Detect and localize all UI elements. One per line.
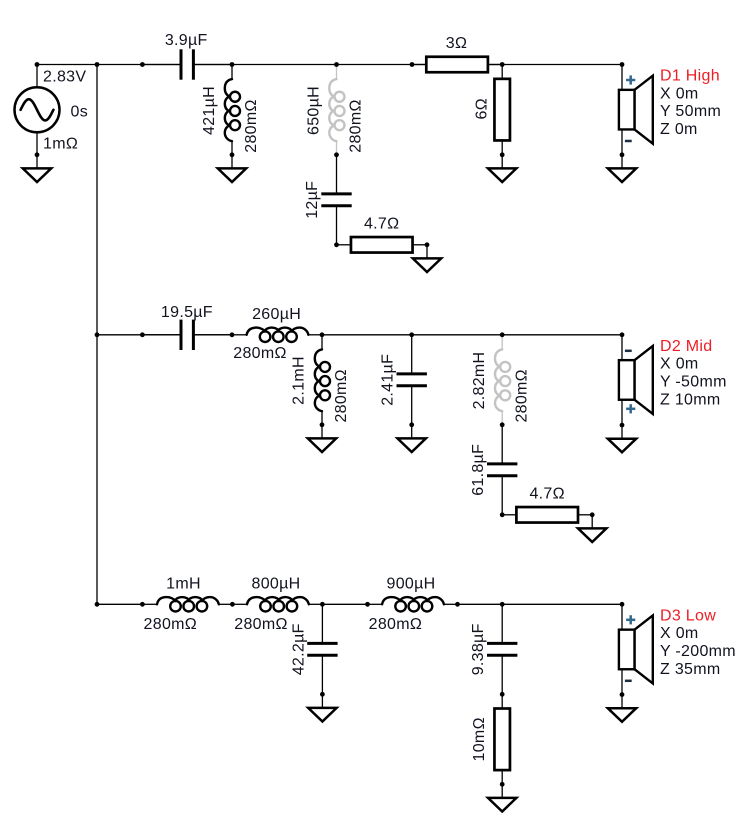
wire top row main — [37, 64, 181, 66]
junction dot L2 top — [334, 62, 339, 67]
svg-text:X 0m: X 0m — [660, 85, 699, 102]
plus sign D1 — [626, 75, 635, 84]
svg-text:4.7Ω: 4.7Ω — [364, 216, 399, 233]
junction dot C7 top — [500, 602, 505, 607]
capacitor C1 3.9uF — [142, 49, 232, 79]
junction dot D3 top — [620, 602, 625, 607]
junction dot C5 bottom — [500, 512, 505, 517]
svg-text:0s: 0s — [71, 104, 89, 121]
wire mid row bus to cap — [97, 334, 181, 336]
svg-text:280mΩ: 280mΩ — [243, 99, 260, 152]
junction dot L6 right — [230, 602, 235, 607]
minus sign D3 — [625, 680, 632, 683]
svg-text:D1 High: D1 High — [660, 68, 720, 85]
minus sign D1 — [625, 140, 632, 143]
svg-text:421µH: 421µH — [201, 86, 218, 135]
junction dot mid row A — [140, 332, 145, 337]
junction dot L1 bottom — [230, 152, 235, 157]
svg-text:Z 35mm: Z 35mm — [660, 661, 720, 678]
capacitor C3 19.5uF — [142, 320, 232, 350]
resistor R5 10m-ohm — [494, 694, 510, 784]
svg-text:D3 Low: D3 Low — [660, 607, 716, 624]
wire bus vertical — [96, 65, 98, 605]
svg-text:4.7Ω: 4.7Ω — [529, 486, 564, 503]
junction dot L2 bottom — [334, 152, 339, 157]
capacitor C5 61.8uF — [487, 425, 517, 515]
resistor R2 3ohm — [412, 57, 502, 73]
resistor R3 6ohm — [494, 65, 510, 155]
capacitor C2 12uF — [321, 155, 351, 245]
junction dot D3 bottom — [620, 692, 625, 697]
svg-text:3.9µF: 3.9µF — [165, 32, 208, 49]
svg-text:2.41µF: 2.41µF — [379, 354, 396, 406]
ground under D2 — [608, 425, 636, 452]
resistor R4 4.7ohm — [502, 507, 592, 523]
resistor R1 4.7ohm — [337, 237, 428, 253]
wire low row to speaker — [458, 603, 623, 605]
inductor L3 260uH — [232, 328, 322, 342]
ground under L4 — [308, 425, 336, 452]
wire top row 3-ohm to speaker — [488, 64, 622, 66]
ground under D1 — [608, 155, 636, 182]
junction dot source top — [35, 62, 40, 67]
inductor L6 1mH — [142, 597, 232, 611]
junction dot R1 right — [425, 242, 430, 247]
junction dot D1 top — [620, 62, 625, 67]
voltage source V1 symbol — [15, 65, 60, 155]
capacitor C4 2.41uF — [397, 335, 427, 425]
junction dot C4 bottom — [409, 422, 414, 427]
speaker D3 — [619, 604, 653, 694]
ground after R4 — [578, 515, 606, 542]
svg-text:Y -50mm: Y -50mm — [660, 374, 727, 391]
ground under source — [23, 155, 51, 182]
inductor L2 650uH (grey) — [329, 65, 344, 155]
svg-text:900µH: 900µH — [387, 576, 436, 593]
junction dot D2 top — [620, 332, 625, 337]
ground under D3 — [608, 695, 636, 722]
junction dot R2 left — [410, 62, 415, 67]
wire low row between coils — [322, 603, 367, 605]
junction dot L1 top — [230, 62, 235, 67]
svg-text:61.8µF: 61.8µF — [470, 444, 487, 496]
svg-text:2.83V: 2.83V — [43, 68, 86, 85]
plus sign D2 — [626, 404, 635, 413]
junction dot L3 left — [230, 332, 235, 337]
svg-text:280mΩ: 280mΩ — [369, 616, 422, 633]
svg-text:19.5µF: 19.5µF — [161, 304, 213, 321]
junction dot C2 bottom — [334, 242, 339, 247]
svg-text:2.82mH: 2.82mH — [471, 352, 488, 410]
svg-text:1mΩ: 1mΩ — [43, 135, 78, 152]
svg-text:800µH: 800µH — [252, 576, 301, 593]
capacitor C7 9.38uF — [487, 604, 517, 694]
svg-text:260µH: 260µH — [252, 306, 301, 323]
svg-text:Z 10mm: Z 10mm — [660, 391, 720, 408]
capacitor C6 42.2uF — [307, 604, 337, 694]
inductor L1 421uH — [225, 65, 240, 155]
ground under C6 — [308, 694, 336, 721]
junction dot top row A — [140, 62, 145, 67]
junction dot L5 bottom — [500, 422, 505, 427]
svg-text:6Ω: 6Ω — [473, 98, 490, 119]
plus sign D3 — [626, 615, 635, 624]
junction dot source bottom — [35, 152, 40, 157]
svg-text:280mΩ: 280mΩ — [144, 616, 197, 633]
junction dot bus top — [95, 62, 100, 67]
junction dot L8 right — [455, 602, 460, 607]
ground after R1 — [413, 245, 441, 272]
ground under L1 — [218, 155, 246, 182]
junction dot R3 bottom — [500, 152, 505, 157]
svg-text:D2 Mid: D2 Mid — [660, 338, 712, 355]
svg-text:3Ω: 3Ω — [446, 35, 467, 52]
svg-text:280mΩ: 280mΩ — [513, 369, 530, 422]
junction dot L4 bottom — [320, 422, 325, 427]
svg-text:10mΩ: 10mΩ — [471, 717, 488, 761]
junction dot D1 bottom — [620, 152, 625, 157]
junction dot R4 right — [590, 512, 595, 517]
svg-text:Z 0m: Z 0m — [660, 121, 698, 138]
wire low row bus to coil — [97, 603, 142, 605]
svg-text:Y -200mm: Y -200mm — [660, 643, 736, 660]
wire mid row cap to coil — [193, 334, 232, 336]
junction dot C6 bottom — [320, 692, 325, 697]
junction dot C4 top — [409, 332, 414, 337]
speaker D2 — [619, 335, 653, 425]
svg-text:1mH: 1mH — [166, 576, 201, 593]
junction dot R2 right — [500, 62, 505, 67]
junction dot bus low — [95, 602, 100, 607]
ground under C4 — [398, 425, 426, 452]
svg-text:280mΩ: 280mΩ — [234, 616, 287, 633]
svg-text:280mΩ: 280mΩ — [233, 345, 286, 362]
ground under R3 — [488, 155, 516, 182]
svg-text:Y 50mm: Y 50mm — [660, 103, 721, 120]
junction dot L5 top — [500, 332, 505, 337]
svg-text:42.2µF: 42.2µF — [291, 623, 308, 675]
svg-text:X 0m: X 0m — [660, 356, 699, 373]
junction dot low row A — [140, 602, 145, 607]
junction dot D2 bottom — [620, 423, 625, 428]
ground under R5 — [488, 784, 516, 811]
svg-text:X 0m: X 0m — [660, 625, 699, 642]
inductor L8 900uH — [368, 597, 458, 611]
junction dot C7 bottom — [500, 692, 505, 697]
junction dot L8 left — [365, 602, 370, 607]
svg-text:9.38µF: 9.38µF — [470, 623, 487, 675]
speaker D1 — [619, 65, 653, 155]
junction dot L3 right — [320, 332, 325, 337]
wire mid row after L2 to speaker — [322, 334, 622, 336]
svg-text:650µH: 650µH — [306, 86, 323, 135]
junction dot R5 bottom — [500, 782, 505, 787]
junction dot L7 right — [320, 602, 325, 607]
wire top row cap to 3-ohm — [193, 64, 426, 66]
inductor L7 800uH — [232, 597, 322, 611]
svg-text:2.1mH: 2.1mH — [291, 356, 308, 405]
svg-text:12µF: 12µF — [304, 181, 321, 219]
svg-text:280mΩ: 280mΩ — [348, 99, 365, 152]
junction dot bus mid — [95, 332, 100, 337]
minus sign D2 — [625, 350, 632, 353]
inductor L5 2.82mH (grey) — [495, 335, 510, 425]
inductor L4 2.1mH — [315, 335, 330, 425]
svg-text:280mΩ: 280mΩ — [333, 369, 350, 422]
